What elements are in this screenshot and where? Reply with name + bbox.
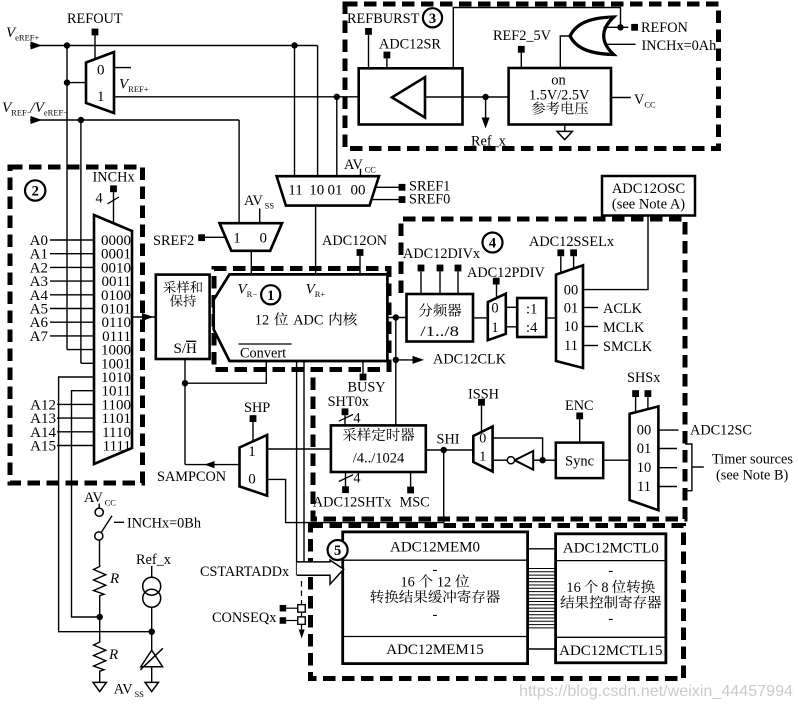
wire SHS 10 timer <box>658 467 677 469</box>
resistor R2 <box>94 641 106 672</box>
junction sync out <box>539 457 545 463</box>
svg-text:01: 01 <box>328 183 343 199</box>
svg-text:ADC12MCTL15: ADC12MCTL15 <box>559 643 662 659</box>
junction VeREF+ to channel-8 <box>64 42 70 48</box>
pin SHT0x <box>342 408 349 415</box>
wire data out A to memory <box>296 361 298 575</box>
wire AVcc stub <box>98 504 100 509</box>
junction VREF+ to VR+ mux input 01 <box>334 94 340 100</box>
svg-text:ADC12MEM0: ADC12MEM0 <box>390 540 480 556</box>
svg-text:CC: CC <box>105 498 117 508</box>
wire VeREF+ corner to mux input 10 <box>317 46 319 177</box>
wire divider to PDIV mux <box>473 317 488 319</box>
wire VREF+ line to REFBURST buffer <box>114 96 359 98</box>
divider ADC12MCTL0 row <box>556 560 666 562</box>
wire ADC12SR to buffer <box>386 58 388 68</box>
junction core clock <box>393 314 399 320</box>
wire SAMPCON output <box>185 464 240 466</box>
svg-text:1: 1 <box>491 320 498 336</box>
junction ADC12CLK tap <box>393 357 399 363</box>
inverter U_INV <box>515 451 534 470</box>
wires ADC12SSELx select <box>560 256 562 273</box>
svg-text:R+: R+ <box>315 289 326 299</box>
ground AVss left <box>93 682 106 691</box>
svg-text:(see Note A): (see Note A) <box>612 197 685 213</box>
svg-text:10: 10 <box>309 183 324 199</box>
svg-text:SS: SS <box>134 689 144 699</box>
svg-text:SREF2: SREF2 <box>153 233 194 249</box>
svg-text::1: :1 <box>526 302 537 318</box>
junction SAMPCON convert <box>182 380 188 386</box>
box Sync <box>556 443 603 479</box>
svg-text:Timer sources: Timer sources <box>712 452 793 468</box>
svg-text:-: - <box>608 563 613 579</box>
svg-text:(see Note B): (see Note B) <box>716 468 788 484</box>
dashed box 1 ADC core <box>214 269 389 370</box>
svg-text:Convert: Convert <box>240 346 286 362</box>
wire SHI to SAMPCON mux 0 <box>267 450 444 523</box>
wire mux output to sample-and-hold <box>132 316 156 318</box>
diode D_temp <box>141 650 163 667</box>
wire A14 to mux <box>57 431 94 433</box>
pin ADC12PDIV <box>493 278 500 285</box>
dashed box 2 analog input mux <box>10 167 143 483</box>
box ADC12OSC <box>602 176 695 216</box>
svg-text:10: 10 <box>564 319 579 335</box>
svg-text:R−: R− <box>247 289 258 299</box>
svg-text:4: 4 <box>353 471 360 487</box>
wire diode to ground <box>151 667 153 683</box>
bus MEM to MCTL <box>528 568 556 570</box>
svg-text:CSTARTADDx: CSTARTADDx <box>200 564 289 580</box>
svg-text:11: 11 <box>564 338 578 354</box>
svg-text:0: 0 <box>248 471 256 487</box>
wire SSEL 11 SMCLK <box>583 345 598 347</box>
switch INCHx=0Bh contact bottom <box>95 532 103 540</box>
svg-text:ADC12DIVx: ADC12DIVx <box>403 246 480 262</box>
svg-text:SHSx: SHSx <box>627 370 660 386</box>
svg-text:INCHx=0Bh: INCHx=0Bh <box>127 516 201 532</box>
pin INCHx <box>110 185 117 192</box>
svg-text:0: 0 <box>97 63 105 79</box>
buffer amp triangle <box>392 77 425 117</box>
wire A7 to mux <box>50 335 94 337</box>
svg-text:ADC12SHTx: ADC12SHTx <box>313 495 392 511</box>
svg-text:ADC12PDIV: ADC12PDIV <box>467 265 546 281</box>
svg-text:SHT0x: SHT0x <box>328 394 369 410</box>
svg-text:11: 11 <box>637 479 651 495</box>
switch contacts CONSEQx <box>298 605 306 613</box>
svg-text:16: 16 <box>401 575 415 591</box>
svg-text:REF2_5V: REF2_5V <box>493 28 552 44</box>
pins ADC12DIVx <box>418 265 425 272</box>
wire ADC12ON to core <box>359 256 361 275</box>
wire switch to R1 <box>99 540 101 565</box>
wire SREF2 to VR- mux select <box>205 236 226 238</box>
box divider /1../8 <box>407 294 474 342</box>
svg-text:SHI: SHI <box>437 432 460 448</box>
wire inverter to ISSH 1 <box>493 459 508 461</box>
svg-text:A7: A7 <box>30 329 49 345</box>
wire A2 to mux <box>50 266 94 268</box>
svg-text:ADC12CLK: ADC12CLK <box>433 352 507 368</box>
wire VREF- down to channel 1001 <box>80 120 82 363</box>
wire A4 to mux <box>50 294 94 296</box>
wire SAMPCON vertical <box>184 359 186 465</box>
svg-text:S/: S/ <box>174 341 187 357</box>
wire A12 to mux <box>57 403 94 405</box>
wires ADC12DIVx to divider <box>420 271 422 294</box>
pin REFON <box>631 24 638 31</box>
ground AVss right <box>145 682 158 691</box>
wire timer out to SHP mux 1 <box>267 448 331 450</box>
svg-text:1: 1 <box>233 231 241 247</box>
svg-text:INCHx=0Ah: INCHx=0Ah <box>642 38 717 54</box>
svg-text:R: R <box>108 647 118 663</box>
wire A13 to mux <box>57 417 94 419</box>
wire ISSH select <box>481 406 483 432</box>
junction VREF- to channel 1001 <box>78 117 84 123</box>
svg-text:on: on <box>551 73 566 89</box>
svg-text:eREF−: eREF− <box>44 108 68 118</box>
wire A5 to mux <box>50 308 94 310</box>
box internal reference 1.5V/2.5V <box>509 68 611 125</box>
pins ADC12SSELx <box>557 249 564 256</box>
svg-text:1.5V/2.5V: 1.5V/2.5V <box>529 87 590 103</box>
svg-text:4: 4 <box>489 236 496 252</box>
svg-text:3: 3 <box>429 11 436 27</box>
svg-text:H: H <box>186 341 197 357</box>
divider ADC12MEM15 row <box>343 636 528 638</box>
dashed box 3 reference <box>345 4 719 149</box>
supply triangle under reference <box>564 125 566 132</box>
svg-text:eREF+: eREF+ <box>15 33 39 43</box>
dashed box 4 clock section <box>313 219 685 519</box>
pin SREF0 <box>399 196 406 203</box>
mux U_SAMPCON sample mode select <box>240 435 268 496</box>
dashed box 5 conversion memory <box>311 526 684 679</box>
box ADC12MCTLx <box>556 534 666 663</box>
bracket timer sources <box>685 444 692 491</box>
dashed control line CONSEQx <box>301 581 303 605</box>
svg-text:CC: CC <box>365 165 377 175</box>
wire A6 to mux <box>50 321 94 323</box>
svg-text:2: 2 <box>32 184 39 200</box>
svg-text:01: 01 <box>637 441 652 457</box>
svg-text:AV: AV <box>114 682 133 698</box>
svg-text:1: 1 <box>479 450 486 465</box>
wire channel 1010 to temperature diode <box>59 377 151 632</box>
svg-text:REFOUT: REFOUT <box>67 11 123 27</box>
svg-text:REF−: REF− <box>11 108 32 118</box>
wire SSEL 01 ACLK <box>583 307 598 309</box>
svg-text:-: - <box>433 607 438 623</box>
junction VeREF+ to VR+ mux input 11 <box>291 42 297 48</box>
wire SHS 00 ADC12SC <box>658 429 678 431</box>
wire REFOUT to mux select <box>94 35 96 59</box>
resistor R1 <box>94 565 106 596</box>
wire VREF- corner down to VR- mux input 1 <box>238 120 240 223</box>
wire Vcc output <box>611 97 631 99</box>
pin BUSY <box>360 374 367 381</box>
wire Ref_x to current source <box>151 566 153 577</box>
wire VR+ mux output to ADC core <box>315 206 317 275</box>
mux U_SSEL clock source select <box>556 265 583 368</box>
label INCHx=0Bh <box>114 521 124 523</box>
svg-text:ENC: ENC <box>565 398 594 414</box>
svg-text:MCLK: MCLK <box>603 320 645 336</box>
wire convert to SAMPCON line <box>185 361 266 383</box>
wire ADC12PDIV select <box>496 285 498 297</box>
wire VREF+ down to mux input 01 <box>336 97 338 176</box>
svg-text:ADC12MEM15: ADC12MEM15 <box>386 642 484 658</box>
svg-text:Ref_x: Ref_x <box>136 552 171 568</box>
pin SREF1 <box>399 184 406 191</box>
svg-text:ADC12SSELx: ADC12SSELx <box>529 234 614 250</box>
wire VR- mux output to ADC core <box>250 251 252 275</box>
wire INCHx select 4-bit <box>113 192 115 224</box>
bus tick SHT0x 4 <box>339 414 353 421</box>
svg-text:ADC12SC: ADC12SC <box>690 423 752 439</box>
wire buffer out <box>425 96 509 98</box>
wire MSC pin <box>410 472 412 487</box>
pin SREF2 <box>198 234 205 241</box>
mux U_PDIV predivider select <box>488 294 506 341</box>
junction REFON feedback <box>617 24 623 30</box>
wire REFON feedback to buffer top <box>453 8 620 69</box>
svg-text:0: 0 <box>491 301 498 317</box>
svg-text:1: 1 <box>267 288 274 304</box>
svg-text:1111: 1111 <box>103 439 131 455</box>
wire REFBURST to buffer <box>368 35 370 69</box>
switch blade <box>102 516 113 532</box>
svg-text:12: 12 <box>437 575 451 591</box>
svg-text:SAMPCON: SAMPCON <box>157 469 226 485</box>
label circled 5 <box>328 540 348 560</box>
svg-text:CC: CC <box>644 100 656 110</box>
wire predivider to SSEL mux <box>546 317 556 319</box>
label circled 2 <box>25 180 45 200</box>
label circled 3 <box>423 8 442 27</box>
pin ADC12SR <box>384 52 391 59</box>
wire VeREF+ to mux input 11 <box>294 46 296 177</box>
pin ISSH <box>478 399 485 406</box>
wire VeREF+ down to channel 1000 <box>66 46 68 350</box>
ADC core 12-bit polygon <box>214 274 388 361</box>
wire Ref_x arrow down <box>485 97 487 122</box>
mux U_SHS trigger select <box>630 406 659 510</box>
svg-text:8: 8 <box>601 580 608 596</box>
label circled 4 <box>483 233 503 253</box>
svg-text:REFON: REFON <box>641 20 688 36</box>
svg-text:AV: AV <box>84 490 103 506</box>
svg-text:ADC: ADC <box>293 313 323 329</box>
pin ADC12SHTx <box>342 486 349 493</box>
current source I_ref <box>143 577 161 595</box>
wire sync out to junction <box>543 459 556 461</box>
wire PDIV 1 to :1 <box>506 306 517 308</box>
wire A0 to mux <box>50 239 94 241</box>
svg-text:/4../1024: /4../1024 <box>353 451 405 467</box>
svg-text:12: 12 <box>255 313 269 329</box>
svg-text:00: 00 <box>637 423 652 439</box>
mux U_CHANNEL input channel multiplexer <box>94 215 132 464</box>
wire A1 to mux <box>50 253 94 255</box>
switch INCHx=0Bh contact top <box>95 508 103 516</box>
svg-text::4: :4 <box>526 320 538 336</box>
pin MSC <box>407 487 414 494</box>
wire MCTL15 link <box>528 648 556 650</box>
wire R2 to ground <box>99 672 101 683</box>
svg-text:ADC12MCTL0: ADC12MCTL0 <box>563 541 659 557</box>
mux U_VRN (VR- select) <box>220 223 283 251</box>
wire SHS 01 timer <box>658 448 677 450</box>
wire data out B to memory <box>303 361 305 562</box>
mux U_ISSH invert select <box>473 427 492 472</box>
svg-text:ACLK: ACLK <box>603 301 643 317</box>
wire mux input-0 stub <box>114 67 131 69</box>
svg-text:-: - <box>608 611 613 627</box>
svg-text:0: 0 <box>260 231 268 247</box>
box sample-and-hold <box>156 275 210 359</box>
bus width tick INCHx 4 <box>108 197 120 204</box>
svg-text:ADC12SR: ADC12SR <box>379 37 441 53</box>
svg-text:00: 00 <box>564 283 579 299</box>
wire SHP select <box>252 422 254 441</box>
wires CONSEQx <box>286 607 298 609</box>
svg-text:https://blog.csdn.net/weixin_4: https://blog.csdn.net/weixin_44457994 <box>519 683 793 700</box>
wire A15 to mux <box>57 445 94 447</box>
box predivider :1 :4 <box>517 298 546 337</box>
wire current source to diode <box>151 607 153 650</box>
wire AVcc stub to VR+ mux input 00 <box>360 169 362 177</box>
svg-text:00: 00 <box>351 183 366 199</box>
svg-text:MSC: MSC <box>400 495 430 511</box>
wire SHS 11 timer <box>658 486 677 488</box>
wire VREF- input arrow <box>31 116 43 124</box>
wire SHI to timer <box>426 449 474 451</box>
wire or output to reference <box>560 36 570 68</box>
svg-text:/1../8: /1../8 <box>420 324 459 340</box>
pin BUSY wire <box>362 361 364 374</box>
svg-text:SS: SS <box>265 201 275 211</box>
svg-text:CONSEQx: CONSEQx <box>212 610 276 626</box>
svg-text:REF+: REF+ <box>128 84 149 94</box>
junction temp sensor node <box>149 629 155 635</box>
wire REFON input <box>604 26 629 28</box>
wire VREF+ into buffer <box>359 96 392 98</box>
wire MCTL0 link <box>528 548 556 550</box>
pin REFOUT <box>92 29 99 36</box>
wire core clock to divider <box>387 317 407 319</box>
bus tick ADC12SHTx 4 <box>339 475 353 482</box>
wire sync to inverter <box>533 459 542 461</box>
box ADC12MEMx <box>343 532 528 664</box>
wire AVss stub to VR- mux <box>259 209 261 223</box>
block arrow CSTARTADDx <box>297 560 344 584</box>
svg-text:4: 4 <box>96 191 103 207</box>
svg-text:SREF0: SREF0 <box>409 192 450 208</box>
wire mux output to channel bus <box>64 79 70 85</box>
svg-text:INCHx: INCHx <box>93 170 135 186</box>
svg-text:ADC12OSC: ADC12OSC <box>612 181 685 197</box>
svg-text:5: 5 <box>334 543 341 559</box>
junction Ref_x tap <box>482 94 488 100</box>
divider ADC12MEM0 row <box>343 559 528 561</box>
svg-text:ADC12ON: ADC12ON <box>322 233 387 249</box>
junction divider mid node <box>97 614 103 620</box>
mux U_REFOUT (VREF+ source select) <box>86 52 114 113</box>
svg-text:1: 1 <box>97 89 105 105</box>
wire ISSH 0 direct <box>493 438 543 460</box>
wire SSEL 00 to ADC12OSC <box>583 216 648 290</box>
pin REF2_5V <box>518 46 525 53</box>
wire REF2_5V pin <box>520 53 522 68</box>
wire SHSx mux to sync <box>603 459 629 461</box>
svg-text:R: R <box>109 571 119 587</box>
junction SHI <box>441 447 447 453</box>
pin ENC <box>576 413 583 420</box>
wire INCHx=0Ah input <box>605 43 636 45</box>
label circled 1 <box>261 285 280 304</box>
svg-text:Ref_x: Ref_x <box>471 134 506 150</box>
pin ADC12ON <box>357 249 364 256</box>
svg-text:01: 01 <box>564 301 579 317</box>
svg-text:AV: AV <box>244 193 263 209</box>
svg-text:11: 11 <box>288 183 302 199</box>
mux U_VRP (VR+ select) <box>277 176 379 205</box>
wire A3 to mux <box>50 280 94 282</box>
wire VeREF+ input arrow <box>31 42 43 50</box>
svg-text:Sync: Sync <box>565 453 594 469</box>
svg-text:1: 1 <box>248 444 256 460</box>
wire SHT0x to sample timer <box>344 415 346 425</box>
wire SREF1 tap <box>376 186 400 188</box>
pins CONSEQx <box>280 605 287 612</box>
wire PDIV 4 to :4 <box>506 326 517 328</box>
svg-text:16: 16 <box>566 580 580 596</box>
wires SHSx select <box>635 397 637 412</box>
pins SHSx <box>632 390 639 397</box>
wire ADC12CLK arrow <box>396 359 418 361</box>
wire clock down to sample timer <box>395 318 397 426</box>
svg-text:A15: A15 <box>30 439 56 455</box>
svg-text:10: 10 <box>637 460 652 476</box>
box sample timer /4../1024 <box>331 425 426 472</box>
svg-text:SMCLK: SMCLK <box>603 339 653 355</box>
or gate U_REFEN <box>570 17 614 55</box>
box reference buffer <box>359 68 463 124</box>
svg-text:REFBURST: REFBURST <box>347 11 420 27</box>
wire R1 to node <box>99 596 101 641</box>
svg-text:SHP: SHP <box>244 400 270 416</box>
svg-text:0: 0 <box>479 432 486 447</box>
pin REFBURST <box>365 28 372 35</box>
pin SHP <box>250 415 257 422</box>
wire ENC to sync <box>579 419 581 442</box>
wire ADC12SHTx pin <box>345 472 347 487</box>
wire SREF0 tap <box>373 199 400 201</box>
divider ADC12MCTL15 row <box>556 636 666 638</box>
wire channel 1011 to divider node <box>72 391 100 617</box>
wire SSEL 10 MCLK <box>583 326 598 328</box>
